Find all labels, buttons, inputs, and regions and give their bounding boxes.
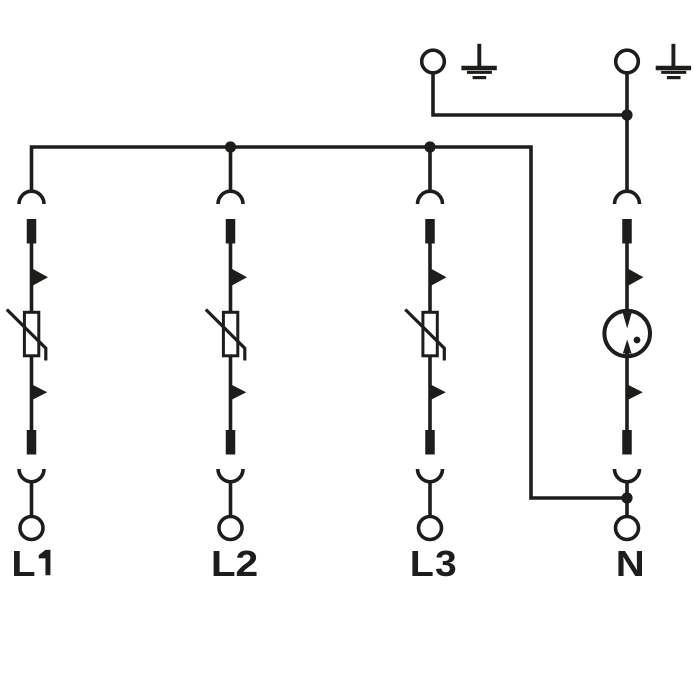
varistor L3 body xyxy=(423,312,437,356)
disconnect arc bottom L3 xyxy=(418,469,443,482)
fuse element rect top L1 xyxy=(27,219,37,244)
fuse element rect top L2 xyxy=(226,219,236,244)
wire L3 mid upper xyxy=(428,243,432,312)
spark gap N upper electrode arrowhead xyxy=(623,313,632,329)
varistor L1 body xyxy=(24,312,38,356)
arrow indicator top L3 xyxy=(431,268,447,286)
label L1 xyxy=(11,545,35,585)
disconnect arc top L3 xyxy=(418,191,443,204)
node junction L2 on bus xyxy=(225,141,236,152)
varistor L3 diagonal stroke xyxy=(405,310,444,361)
label L2 xyxy=(211,544,258,584)
wire L3 mid lower xyxy=(428,356,432,430)
spark gap N lower electrode arrowhead xyxy=(623,340,632,354)
node junction PE bus on N wire xyxy=(621,109,632,120)
svg-text:L: L xyxy=(410,544,434,584)
wire L1 mid upper xyxy=(30,243,34,312)
spark gap N trigger dot xyxy=(634,337,641,344)
wire N mid lower xyxy=(625,353,629,430)
terminal PE2 circle xyxy=(616,50,639,73)
disconnect arc bottom L2 xyxy=(218,469,243,482)
terminal L1 circle xyxy=(20,517,43,540)
wire L2 drop from bus xyxy=(229,147,233,192)
svg-text:3: 3 xyxy=(435,543,457,583)
arrow indicator top L1 xyxy=(32,268,48,286)
spark gap N circle xyxy=(604,311,650,357)
wire N stem to terminal xyxy=(625,482,629,516)
wire L1 mid lower xyxy=(30,356,34,430)
ground symbol (right) xyxy=(656,44,691,78)
terminal PE1 circle xyxy=(422,50,445,73)
arrow indicator bottom L2 xyxy=(231,385,246,401)
arrow indicator bottom L3 xyxy=(431,385,446,401)
fuse element rect bottom L2 xyxy=(226,430,236,455)
arrow indicator top L2 xyxy=(231,268,247,286)
terminal L2 circle xyxy=(219,517,242,540)
wire PE1 to junction xyxy=(433,74,625,116)
arrow indicator bottom N xyxy=(628,385,643,401)
wire L1 stem to terminal xyxy=(30,482,34,516)
svg-text:2: 2 xyxy=(235,544,258,584)
fuse element rect top L3 xyxy=(425,219,435,244)
fuse element rect bottom L1 xyxy=(27,430,37,455)
svg-text:L: L xyxy=(211,544,236,584)
disconnect arc bottom N xyxy=(615,469,640,482)
disconnect arc bottom L1 xyxy=(19,469,44,482)
arrow indicator bottom L1 xyxy=(32,385,47,401)
wire PE2 down N branch top xyxy=(625,74,629,193)
svg-text:N: N xyxy=(616,545,645,585)
wire L3 stem to terminal xyxy=(428,482,432,516)
wire L2 mid upper xyxy=(229,243,233,312)
wire L2 mid lower xyxy=(229,356,233,430)
ground symbol (left) xyxy=(461,44,496,78)
disconnect arc top L1 xyxy=(19,191,44,204)
fuse element rect top N xyxy=(622,219,632,244)
terminal N circle xyxy=(616,517,639,540)
terminal L3 circle xyxy=(419,517,442,540)
wire main bus L1-L3 top with corner down to N return xyxy=(32,147,626,498)
fuse element rect bottom N xyxy=(622,430,632,455)
wire L2 stem to terminal xyxy=(229,482,233,516)
label N xyxy=(616,545,645,585)
arrow indicator top N xyxy=(628,268,644,286)
node junction L3 on bus xyxy=(424,141,435,152)
fuse element rect bottom L3 xyxy=(425,430,435,455)
varistor L2 body xyxy=(223,312,237,356)
wire N mid upper xyxy=(625,243,629,314)
varistor L1 diagonal stroke xyxy=(7,310,46,361)
disconnect arc top L2 xyxy=(218,191,243,204)
disconnect arc top N xyxy=(615,191,640,204)
wire L3 drop from bus xyxy=(428,147,432,192)
label L3 xyxy=(410,543,457,583)
node junction N return xyxy=(621,492,632,503)
varistor L2 diagonal stroke xyxy=(206,310,245,361)
svg-text:L: L xyxy=(11,545,35,585)
